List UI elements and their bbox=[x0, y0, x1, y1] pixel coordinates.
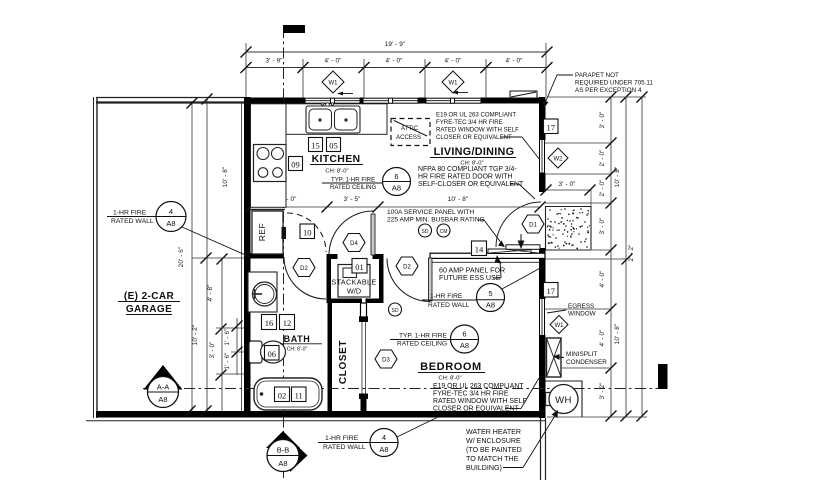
closet east wall upper bbox=[361, 303, 367, 317]
svg-text:W/ ENCLOSURE: W/ ENCLOSURE bbox=[466, 437, 521, 445]
left dim line 20'-6" bbox=[191, 101, 193, 412]
roof scupper at NE corner bbox=[510, 91, 537, 98]
unit east wall segments bbox=[539, 97, 546, 138]
door 10 dashed swing bbox=[287, 213, 326, 252]
svg-text:10' - 8": 10' - 8" bbox=[614, 167, 621, 188]
svg-text:A8: A8 bbox=[278, 459, 287, 468]
closet west wall bbox=[328, 299, 333, 417]
svg-text:11: 11 bbox=[295, 390, 303, 400]
door tag D4 bbox=[343, 234, 365, 252]
svg-text:3' - 0": 3' - 0" bbox=[559, 181, 576, 188]
svg-text:02: 02 bbox=[278, 390, 287, 400]
box 14 bbox=[472, 241, 487, 256]
svg-text:W1: W1 bbox=[555, 323, 565, 329]
svg-text:HR FIRE RATED DOOR WITH: HR FIRE RATED DOOR WITH bbox=[418, 174, 512, 181]
toilet bbox=[249, 341, 262, 363]
svg-text:4' - 0": 4' - 0" bbox=[445, 58, 462, 65]
box 09 bbox=[289, 157, 303, 171]
bath door D2 swing bbox=[284, 257, 326, 299]
svg-text:6: 6 bbox=[462, 330, 466, 339]
keynote circle 4/A8 left bbox=[156, 202, 186, 232]
svg-text:STACKABLE: STACKABLE bbox=[331, 278, 376, 287]
minisplit condenser bbox=[547, 338, 562, 377]
keynote circle 5/A8 bbox=[477, 284, 505, 312]
svg-text:A8: A8 bbox=[379, 445, 388, 454]
svg-text:PARAPET NOT: PARAPET NOT bbox=[575, 72, 619, 79]
box 02 bbox=[275, 387, 290, 402]
section marker B-B bbox=[266, 431, 300, 448]
patio door D1 sliding panels bbox=[488, 249, 531, 254]
svg-text:17: 17 bbox=[546, 122, 555, 132]
svg-text:4' - 0": 4' - 0" bbox=[599, 271, 606, 288]
svg-text:5: 5 bbox=[488, 289, 492, 298]
W1 window tag diamond (bay2) bbox=[322, 71, 344, 93]
bath vanity bbox=[248, 272, 277, 312]
svg-text:09: 09 bbox=[291, 159, 300, 169]
slider direction arrow west bbox=[341, 93, 353, 95]
W/D closet right wall bbox=[379, 254, 384, 303]
W/D door D4 leaf bbox=[371, 214, 375, 255]
svg-text:4' - 0": 4' - 0" bbox=[325, 58, 342, 65]
svg-text:MINISPLIT: MINISPLIT bbox=[566, 351, 597, 358]
svg-text:E19 OR UL 263 COMPLIANT: E19 OR UL 263 COMPLIANT bbox=[436, 112, 516, 119]
keynote circle 6/A8 bedroom bbox=[451, 325, 479, 353]
attic access bbox=[391, 119, 430, 146]
window tag W1 egress bbox=[550, 316, 568, 334]
svg-text:14: 14 bbox=[475, 244, 484, 254]
door tag D2 bedroom bbox=[396, 257, 418, 275]
SE corner fence lines bbox=[540, 418, 542, 480]
svg-text:RATED WALL: RATED WALL bbox=[111, 218, 154, 225]
dimension extension lines bbox=[245, 43, 247, 97]
svg-text:2' - 0": 2' - 0" bbox=[599, 150, 606, 167]
refrigerator bbox=[252, 211, 283, 254]
svg-text:W1: W1 bbox=[329, 80, 339, 86]
svg-text:BATH: BATH bbox=[284, 334, 311, 344]
carbon monoxide CM living bbox=[437, 224, 450, 237]
svg-text:NFPA 80 COMPLIANT TGP 3/4-: NFPA 80 COMPLIANT TGP 3/4- bbox=[418, 166, 517, 173]
section line A-A horizontal bbox=[143, 388, 658, 390]
svg-text:6: 6 bbox=[394, 172, 398, 181]
overall dim line 19'-9" bbox=[246, 51, 547, 53]
box 12 bbox=[280, 315, 295, 330]
svg-text:3' - 5": 3' - 5" bbox=[344, 196, 361, 203]
svg-text:CH: 8'-0": CH: 8'-0" bbox=[438, 376, 461, 382]
svg-text:LIVING/DINING: LIVING/DINING bbox=[434, 146, 515, 158]
keynote circle 6/A8 kitchen bbox=[383, 168, 411, 196]
svg-text:RATED CEILING: RATED CEILING bbox=[330, 184, 377, 191]
svg-text:4' - 8": 4' - 8" bbox=[207, 285, 214, 302]
svg-text:3' - 9": 3' - 9" bbox=[266, 58, 283, 65]
svg-text:W2: W2 bbox=[554, 156, 564, 162]
svg-text:2' - 2": 2' - 2" bbox=[628, 245, 635, 262]
svg-text:1' - 6": 1' - 6" bbox=[224, 353, 231, 370]
svg-text:FYRE-TEC 3/4 HR FIRE: FYRE-TEC 3/4 HR FIRE bbox=[436, 119, 503, 126]
keynote circle 4/A8 bottom bbox=[370, 429, 398, 457]
svg-text:1-HR FIRE: 1-HR FIRE bbox=[430, 293, 463, 300]
svg-text:FYRE-TEC 3/4 HR FIRE: FYRE-TEC 3/4 HR FIRE bbox=[433, 391, 509, 398]
closet sliding door bbox=[361, 322, 363, 394]
kitchen sink bbox=[306, 106, 360, 133]
svg-text:12: 12 bbox=[283, 318, 292, 328]
svg-text:06: 06 bbox=[267, 349, 276, 359]
svg-text:ACCESS: ACCESS bbox=[396, 134, 421, 141]
svg-text:ATTIC: ATTIC bbox=[401, 125, 419, 132]
svg-text:3' - 2": 3' - 2" bbox=[599, 383, 606, 400]
left dim line 1'-6" pair bbox=[236, 318, 238, 375]
svg-text:4: 4 bbox=[382, 433, 386, 442]
section B-B top flag bbox=[283, 25, 305, 33]
svg-text:RATED WINDOW WITH SELF: RATED WINDOW WITH SELF bbox=[433, 398, 527, 405]
W/D closet left wall bbox=[327, 254, 332, 303]
svg-text:4' - 0": 4' - 0" bbox=[599, 330, 606, 347]
svg-text:A8: A8 bbox=[166, 219, 175, 228]
svg-text:REQUIRED UNDER 705.11: REQUIRED UNDER 705.11 bbox=[575, 80, 653, 87]
patio door swing arc bbox=[496, 202, 541, 247]
svg-text:4: 4 bbox=[169, 207, 173, 216]
garage east face line bbox=[241, 103, 243, 411]
box 06 bbox=[265, 346, 280, 361]
svg-text:17: 17 bbox=[546, 286, 555, 296]
svg-text:SD: SD bbox=[392, 308, 399, 314]
svg-text:A8: A8 bbox=[486, 301, 495, 310]
box 10 bbox=[300, 224, 315, 239]
svg-text:D3: D3 bbox=[382, 357, 390, 363]
garage north wall bbox=[96, 97, 244, 99]
svg-text:16: 16 bbox=[265, 318, 274, 328]
svg-text:CM: CM bbox=[440, 229, 448, 235]
door tag D1 bbox=[522, 215, 544, 233]
svg-text:E19 OR UL 263 COMPLIANT: E19 OR UL 263 COMPLIANT bbox=[433, 383, 524, 390]
right dim line B 10'-8" x2 bbox=[625, 97, 627, 417]
svg-text:KITCHEN: KITCHEN bbox=[312, 153, 361, 165]
WH enclosure bbox=[546, 381, 583, 417]
section marker A-A bbox=[144, 365, 183, 390]
bath north wall bbox=[244, 253, 284, 259]
svg-text:4' - 0": 4' - 0" bbox=[386, 58, 403, 65]
svg-text:A8: A8 bbox=[158, 395, 167, 404]
WH bracket bbox=[546, 393, 551, 406]
svg-text:1-HR FIRE: 1-HR FIRE bbox=[325, 435, 359, 442]
svg-text:WINDOW: WINDOW bbox=[568, 311, 596, 318]
svg-text:A-A: A-A bbox=[157, 383, 170, 392]
svg-text:05: 05 bbox=[329, 140, 338, 150]
svg-text:TO MATCH THE: TO MATCH THE bbox=[466, 455, 519, 463]
svg-text:RATED WALL: RATED WALL bbox=[323, 444, 366, 451]
svg-text:1-HR FIRE: 1-HR FIRE bbox=[113, 210, 147, 217]
left dim line 10'-8"/10'-2" bbox=[206, 97, 208, 412]
segment dim line bbox=[246, 67, 547, 69]
D1 arrow bbox=[520, 234, 522, 241]
svg-text:TYP. 1-HR FIRE: TYP. 1-HR FIRE bbox=[399, 333, 447, 340]
svg-text:1' - 6": 1' - 6" bbox=[224, 329, 231, 346]
right dim line A segments bbox=[610, 97, 612, 417]
smoke detector SD living bbox=[419, 224, 432, 237]
svg-text:RATED WALL: RATED WALL bbox=[428, 302, 470, 309]
svg-text:100A SERVICE PANEL WITH: 100A SERVICE PANEL WITH bbox=[387, 209, 474, 216]
W/D door D4 swing bbox=[329, 211, 373, 255]
kitchen/hall dim line bbox=[250, 206, 541, 208]
smoke detector SD hall bbox=[389, 303, 402, 316]
right horizontal extension lines bbox=[547, 96, 646, 98]
svg-text:20' - 6": 20' - 6" bbox=[178, 247, 185, 268]
svg-text:3' - 0": 3' - 0" bbox=[599, 112, 606, 129]
window W1 north (bay4) bbox=[426, 98, 481, 103]
svg-text:GARAGE: GARAGE bbox=[126, 304, 172, 315]
window W2 east wall bbox=[540, 138, 545, 173]
svg-text:10: 10 bbox=[303, 227, 312, 237]
section A-A right flag bbox=[658, 364, 668, 389]
svg-text:D4: D4 bbox=[350, 241, 358, 247]
stackable W/D unit bbox=[338, 265, 370, 298]
kitchen counter north bbox=[285, 104, 387, 135]
patio slab outline bbox=[546, 207, 592, 251]
south property line bbox=[86, 420, 545, 422]
unit north wall solid segments bbox=[244, 98, 305, 104]
svg-text:(E) 2-CAR: (E) 2-CAR bbox=[124, 291, 175, 302]
svg-text:CLOSET: CLOSET bbox=[338, 340, 349, 384]
faucet bbox=[326, 103, 329, 106]
box 05 bbox=[327, 138, 341, 152]
svg-text:CH: 8'-0": CH: 8'-0" bbox=[287, 347, 308, 353]
W/D closet bottom wall bbox=[327, 299, 362, 304]
slider direction arrow east bbox=[456, 92, 468, 94]
svg-text:EGRESS: EGRESS bbox=[568, 303, 594, 310]
patio stipple bbox=[547, 208, 590, 249]
svg-text:225 AMP MIN. BUSBAR RATING: 225 AMP MIN. BUSBAR RATING bbox=[387, 217, 485, 224]
box 15 bbox=[309, 138, 323, 152]
nook top wall bbox=[250, 209, 285, 211]
svg-text:D2: D2 bbox=[403, 264, 411, 270]
egress window east wall bbox=[540, 298, 545, 336]
dryer vent duct bbox=[361, 303, 363, 317]
section line B-B below marker bbox=[283, 472, 285, 480]
svg-text:01: 01 bbox=[355, 262, 364, 272]
W1 window tag diamond (bay4) bbox=[442, 71, 464, 93]
door tag D2 bath bbox=[293, 259, 315, 277]
svg-text:RATED WINDOW WITH SELF: RATED WINDOW WITH SELF bbox=[436, 127, 519, 134]
svg-text:CLOSER OR EQUIVALENT: CLOSER OR EQUIVALENT bbox=[433, 406, 519, 413]
left dim line 4'-8"/3'-0" bbox=[221, 258, 223, 412]
svg-text:WATER HEATER: WATER HEATER bbox=[466, 428, 521, 436]
box 11 bbox=[292, 387, 307, 402]
svg-text:3' - 0": 3' - 0" bbox=[209, 342, 216, 359]
bathtub bbox=[254, 378, 322, 410]
svg-text:CLOSER OR EQUIVALENT: CLOSER OR EQUIVALENT bbox=[436, 134, 512, 141]
svg-text:SD: SD bbox=[422, 229, 429, 235]
range bbox=[254, 145, 287, 182]
window W1 north (bay2) bbox=[305, 98, 360, 103]
box 01 bbox=[352, 259, 367, 274]
bath lavatory sink bbox=[253, 282, 277, 306]
svg-text:19' - 9": 19' - 9" bbox=[385, 41, 406, 48]
water heater circle bbox=[549, 385, 578, 414]
unit west wall bbox=[244, 97, 251, 417]
window tag W2 bbox=[548, 148, 568, 168]
svg-text:FUTURE ESS USE: FUTURE ESS USE bbox=[439, 274, 501, 282]
svg-text:W/D: W/D bbox=[347, 287, 361, 296]
svg-text:BEDROOM: BEDROOM bbox=[420, 361, 482, 373]
window north (bay3) bbox=[363, 98, 418, 103]
svg-text:10' - 8": 10' - 8" bbox=[448, 196, 469, 203]
svg-text:BUILDING): BUILDING) bbox=[466, 464, 502, 472]
svg-text:B-B: B-B bbox=[277, 446, 290, 455]
svg-text:D1: D1 bbox=[529, 222, 537, 228]
right dim line C overall bbox=[641, 97, 643, 417]
svg-text:CONDENSER: CONDENSER bbox=[566, 359, 607, 366]
svg-text:15: 15 bbox=[311, 140, 320, 150]
closet top wall bbox=[328, 299, 362, 304]
svg-text:W1: W1 bbox=[449, 80, 459, 86]
svg-text:10' - 8": 10' - 8" bbox=[614, 324, 621, 345]
svg-text:D2: D2 bbox=[300, 266, 308, 272]
bedroom door swing bbox=[387, 259, 430, 302]
left connector lines bbox=[192, 257, 244, 259]
leader 100A note to panel bbox=[478, 219, 484, 221]
patio width dim 3'-0" bbox=[546, 189, 591, 191]
section line B-B vertical bbox=[283, 27, 285, 437]
leader to W2 window bbox=[501, 136, 522, 138]
kitchen counter west bbox=[251, 104, 287, 208]
svg-text:RATED CEILING: RATED CEILING bbox=[397, 341, 447, 348]
box 17 upper east bbox=[544, 119, 559, 134]
parapet leader bbox=[545, 75, 573, 103]
closet east wall lower bbox=[359, 394, 368, 400]
svg-text:4' - 0": 4' - 0" bbox=[506, 58, 523, 65]
svg-text:WH: WH bbox=[555, 395, 572, 406]
svg-text:A8: A8 bbox=[392, 184, 401, 193]
svg-text:2' - 0": 2' - 0" bbox=[599, 180, 606, 197]
door 10 hinge block bbox=[282, 227, 287, 239]
svg-text:REF: REF bbox=[257, 223, 267, 242]
door tag D3 bbox=[375, 350, 397, 368]
bedroom north wall bbox=[430, 253, 545, 258]
box 16 bbox=[262, 315, 277, 330]
box 17 lower east bbox=[544, 283, 559, 298]
svg-text:A8: A8 bbox=[460, 341, 469, 350]
garage / unit south wall bbox=[96, 411, 545, 418]
svg-text:SELF-CLOSER OR EQUIVALENT: SELF-CLOSER OR EQUIVALENT bbox=[418, 181, 524, 188]
svg-text:10' - 2": 10' - 2" bbox=[192, 325, 199, 346]
svg-text:AS PER EXCEPTION 4: AS PER EXCEPTION 4 bbox=[575, 87, 642, 94]
svg-text:10' - 8": 10' - 8" bbox=[222, 167, 229, 188]
bedroom door leaf bbox=[429, 258, 433, 301]
garage west wall bbox=[93, 97, 95, 418]
svg-text:CH: 8'-0": CH: 8'-0" bbox=[325, 169, 348, 175]
svg-text:3' - 0": 3' - 0" bbox=[599, 218, 606, 235]
svg-text:TYP. 1-HR FIRE: TYP. 1-HR FIRE bbox=[331, 177, 375, 184]
svg-text:(TO BE PAINTED: (TO BE PAINTED bbox=[466, 446, 522, 454]
